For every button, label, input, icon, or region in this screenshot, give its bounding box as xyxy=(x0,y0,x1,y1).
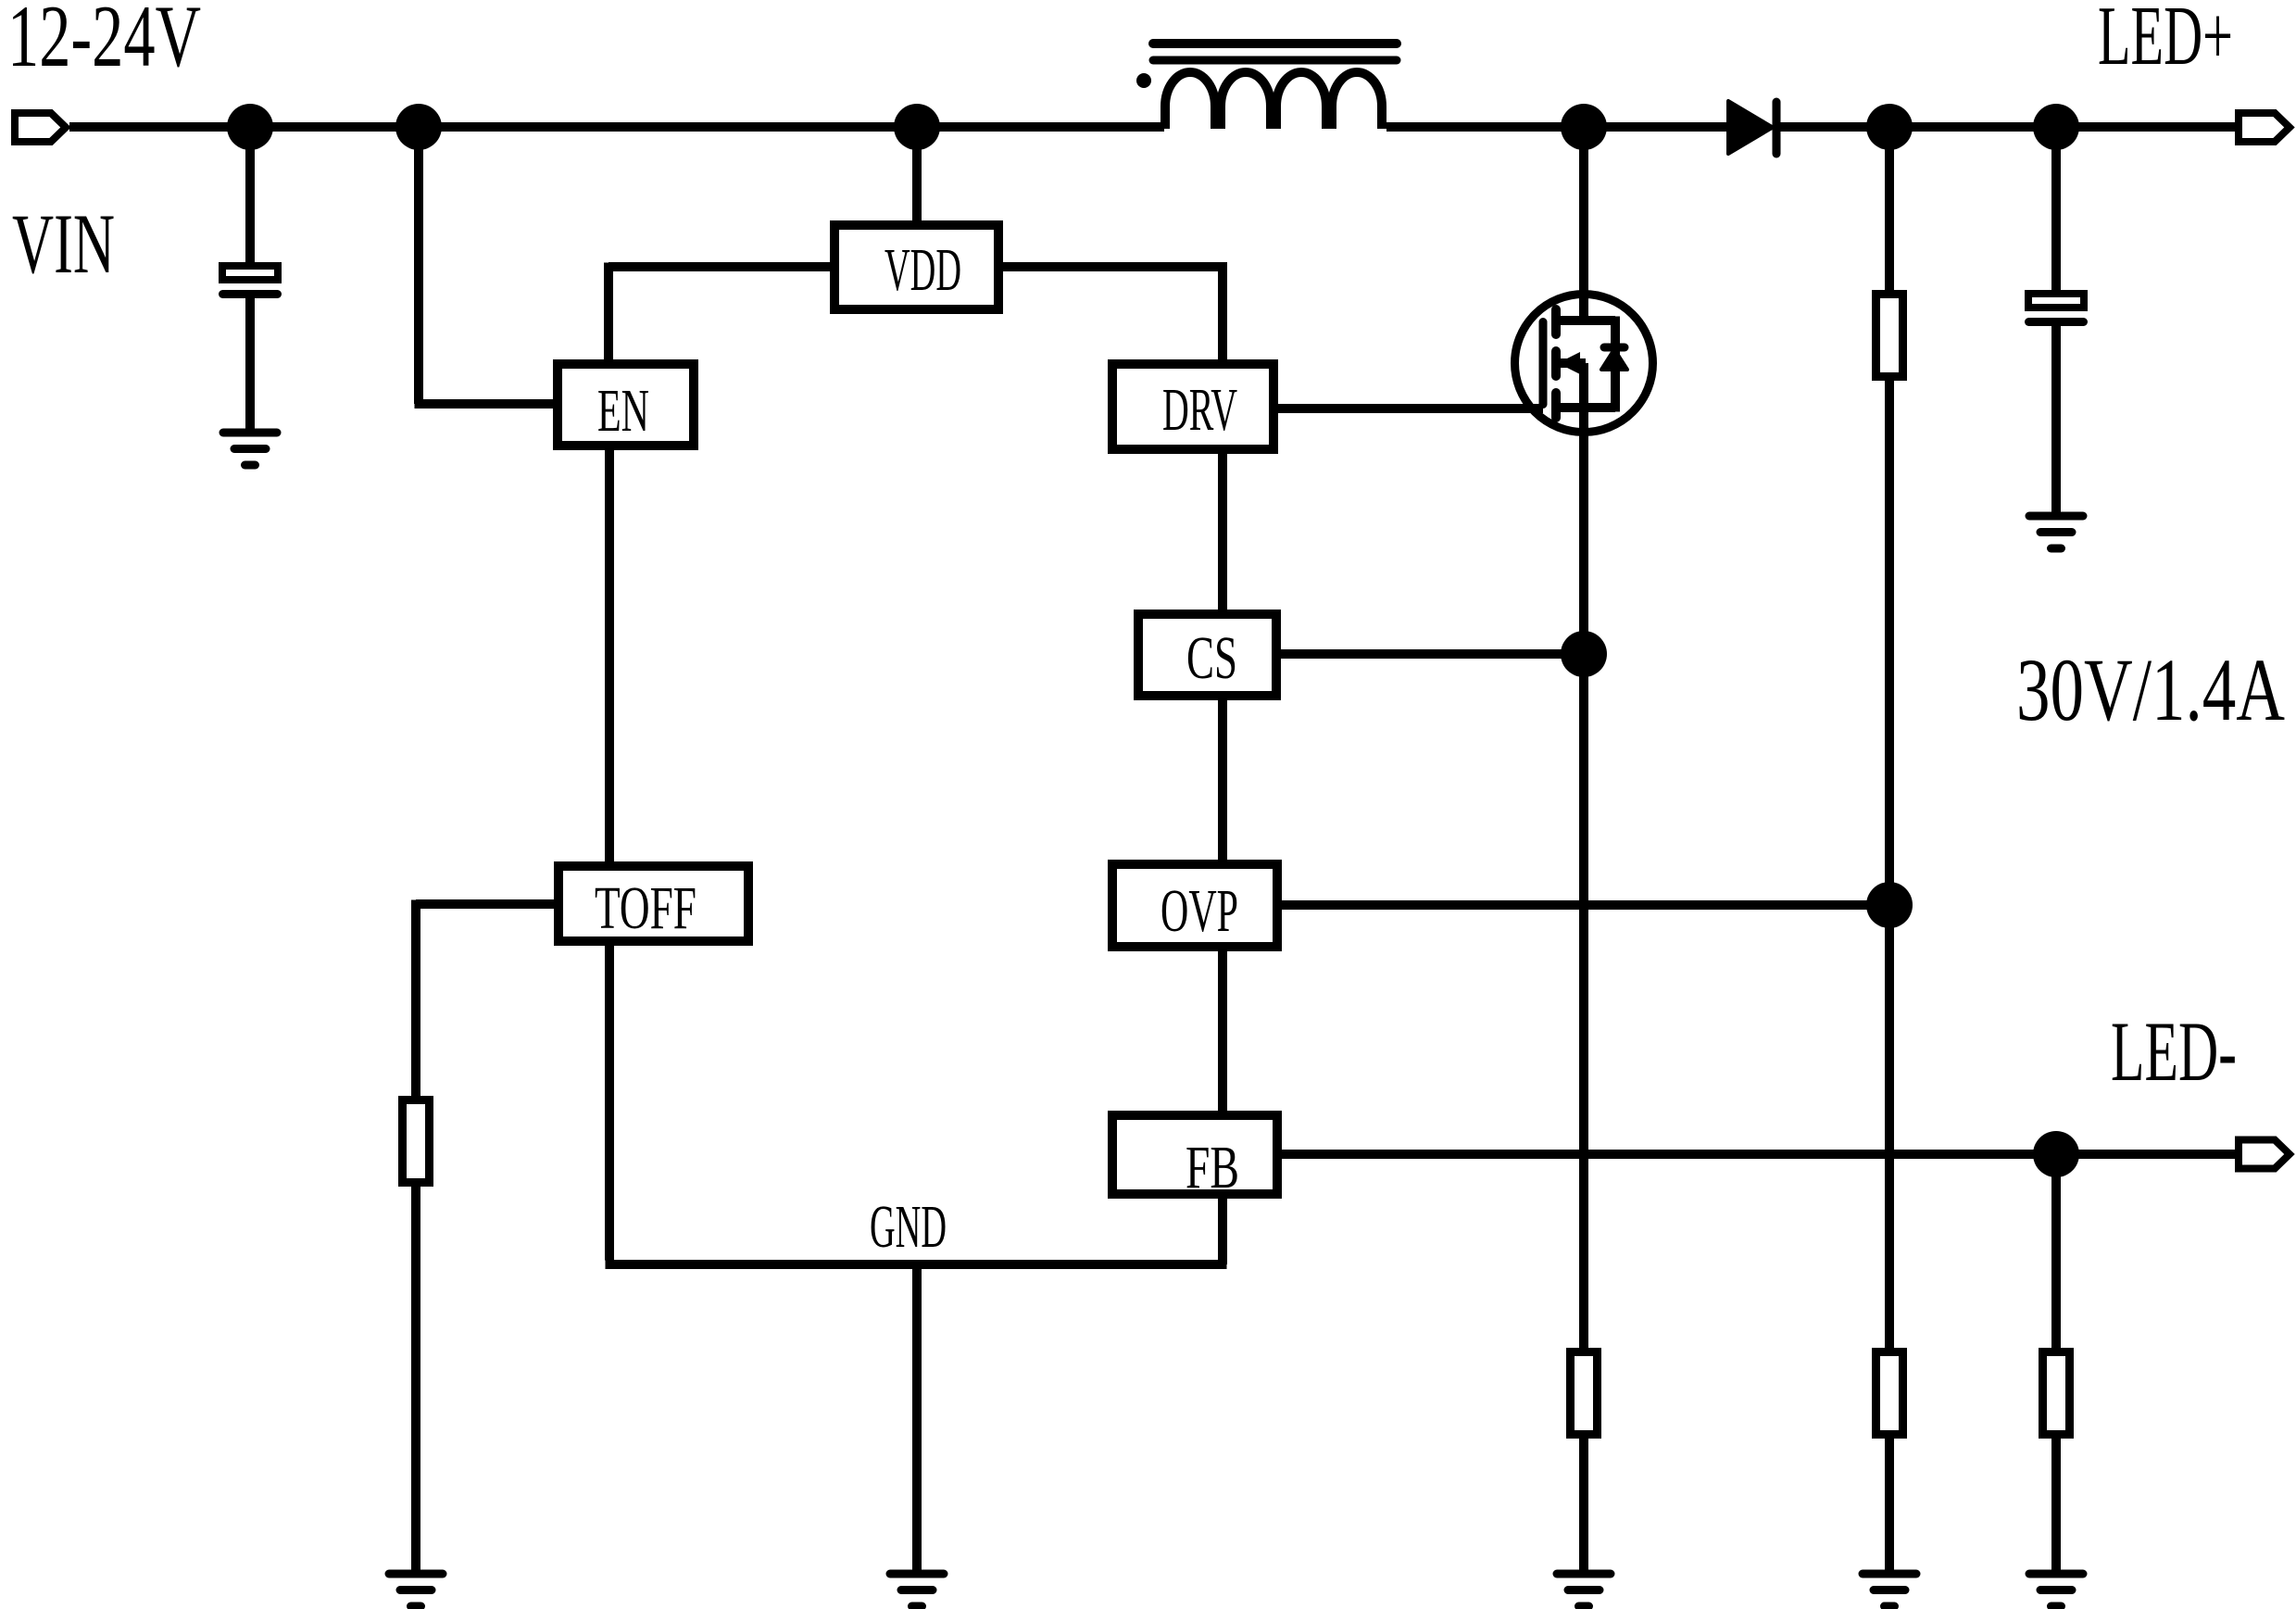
svg-text:DRV: DRV xyxy=(1162,376,1237,444)
ground below C2 xyxy=(2029,516,2083,548)
transistor Q1 N-MOSFET xyxy=(1515,127,1653,433)
inductor L1 winding xyxy=(1165,72,1382,129)
wire R3 to R4 xyxy=(1885,381,1894,1348)
net label LED+ xyxy=(2098,0,2233,82)
net label VIN xyxy=(12,196,115,291)
IC pin CS xyxy=(1138,614,1276,696)
resistor R1 TOFF set xyxy=(403,1100,430,1183)
wire VDD to DRV corner xyxy=(1003,262,1223,359)
junction OVP divider tap xyxy=(1866,882,1913,928)
port terminal LED- output xyxy=(2239,1140,2290,1169)
port terminal LED+ output xyxy=(2239,113,2290,142)
svg-text:TOFF: TOFF xyxy=(595,874,696,942)
wire DRV to CS xyxy=(1218,454,1227,610)
net label LED- xyxy=(2111,1004,2237,1099)
wire VDD to EN corner xyxy=(609,263,830,360)
ground below R4 xyxy=(1863,1574,1916,1606)
wire R1 to ground xyxy=(411,1187,420,1574)
wire Q1 source to sense node xyxy=(1579,408,1588,654)
net label GND xyxy=(870,1193,947,1261)
wire C1 to ground xyxy=(245,298,255,433)
junction output cap node xyxy=(2033,104,2079,150)
junction OVP divider node xyxy=(1866,104,1913,150)
wire rail to C1 xyxy=(245,127,255,262)
svg-text:30V/1.4A: 30V/1.4A xyxy=(2016,640,2285,739)
wire OVP to divider xyxy=(1282,900,1889,910)
port terminal VIN input xyxy=(15,113,66,142)
junction VDD branch node xyxy=(894,104,940,150)
net label 12-24V xyxy=(7,0,201,85)
wire rail to C2 xyxy=(2051,127,2061,290)
junction source sense node xyxy=(1561,631,1607,677)
wire LED- node to R5 xyxy=(2051,1154,2061,1348)
resistor R5 FB sense xyxy=(2043,1352,2070,1435)
svg-text:FB: FB xyxy=(1186,1134,1239,1201)
IC pin TOFF xyxy=(558,866,748,942)
wire CS to OVP xyxy=(1218,700,1227,860)
svg-text:VIN: VIN xyxy=(12,196,115,291)
ground below R1 xyxy=(389,1574,443,1606)
wire R2 to ground xyxy=(1579,1439,1588,1574)
resistor R4 OVP lower xyxy=(1876,1352,1903,1435)
IC pin VDD xyxy=(834,225,998,309)
junction EN branch node xyxy=(395,104,442,150)
wire top rail diode to LED+ xyxy=(1780,122,2235,132)
wire rail to EN pin xyxy=(415,127,554,404)
wire sense node to R2 xyxy=(1579,654,1588,1348)
svg-text:LED+: LED+ xyxy=(2098,0,2233,82)
wire FB to LED- rail xyxy=(1282,1150,2235,1159)
IC pin OVP xyxy=(1112,864,1277,947)
junction LED- sense node xyxy=(2033,1131,2079,1177)
svg-text:CS: CS xyxy=(1186,624,1237,692)
svg-text:12-24V: 12-24V xyxy=(7,0,201,85)
inductor L1 core bars xyxy=(1153,44,1397,60)
resistor R2 current sense xyxy=(1571,1352,1598,1435)
wire GND rail xyxy=(606,946,1227,1264)
inductor L1 phase dot xyxy=(1136,73,1151,88)
wire FB to GND rail xyxy=(1218,1199,1227,1264)
diode D1 xyxy=(1728,101,1776,154)
wire GND pin to ground xyxy=(912,1264,922,1574)
ground below GND pin xyxy=(890,1574,944,1606)
wire R4 to ground xyxy=(1885,1439,1894,1574)
net label 30V/1.4A xyxy=(2016,640,2285,739)
wire rail to R3 xyxy=(1885,127,1894,290)
capacitor C1 xyxy=(219,266,282,298)
ground below R5 xyxy=(2029,1574,2083,1606)
wire CS to source node xyxy=(1281,649,1584,659)
capacitor C2 output xyxy=(2025,294,2088,326)
svg-text:VDD: VDD xyxy=(885,236,961,304)
wire OVP to FB xyxy=(1218,951,1227,1111)
IC pin FB xyxy=(1112,1115,1277,1201)
wire TOFF to R1 xyxy=(416,900,554,1097)
wire top rail input to inductor xyxy=(69,122,1164,132)
svg-text:GND: GND xyxy=(870,1193,947,1261)
IC pin EN xyxy=(558,364,694,446)
IC pin DRV xyxy=(1112,364,1273,449)
svg-text:EN: EN xyxy=(597,377,649,445)
ground below C1 xyxy=(223,433,277,465)
wire EN to TOFF xyxy=(605,450,614,861)
wire DRV to gate xyxy=(1278,404,1543,413)
svg-text:OVP: OVP xyxy=(1161,877,1238,945)
wire R5 to ground xyxy=(2051,1439,2061,1574)
wire rail to VDD pin xyxy=(912,127,922,220)
wire C2 to ground xyxy=(2051,326,2061,516)
ground below R2 xyxy=(1557,1574,1611,1606)
resistor R3 OVP upper xyxy=(1876,295,1903,377)
wire top rail inductor to diode xyxy=(1386,122,1728,132)
junction input cap node xyxy=(227,104,273,150)
svg-text:LED-: LED- xyxy=(2111,1004,2237,1099)
junction SW drain node xyxy=(1561,104,1607,150)
